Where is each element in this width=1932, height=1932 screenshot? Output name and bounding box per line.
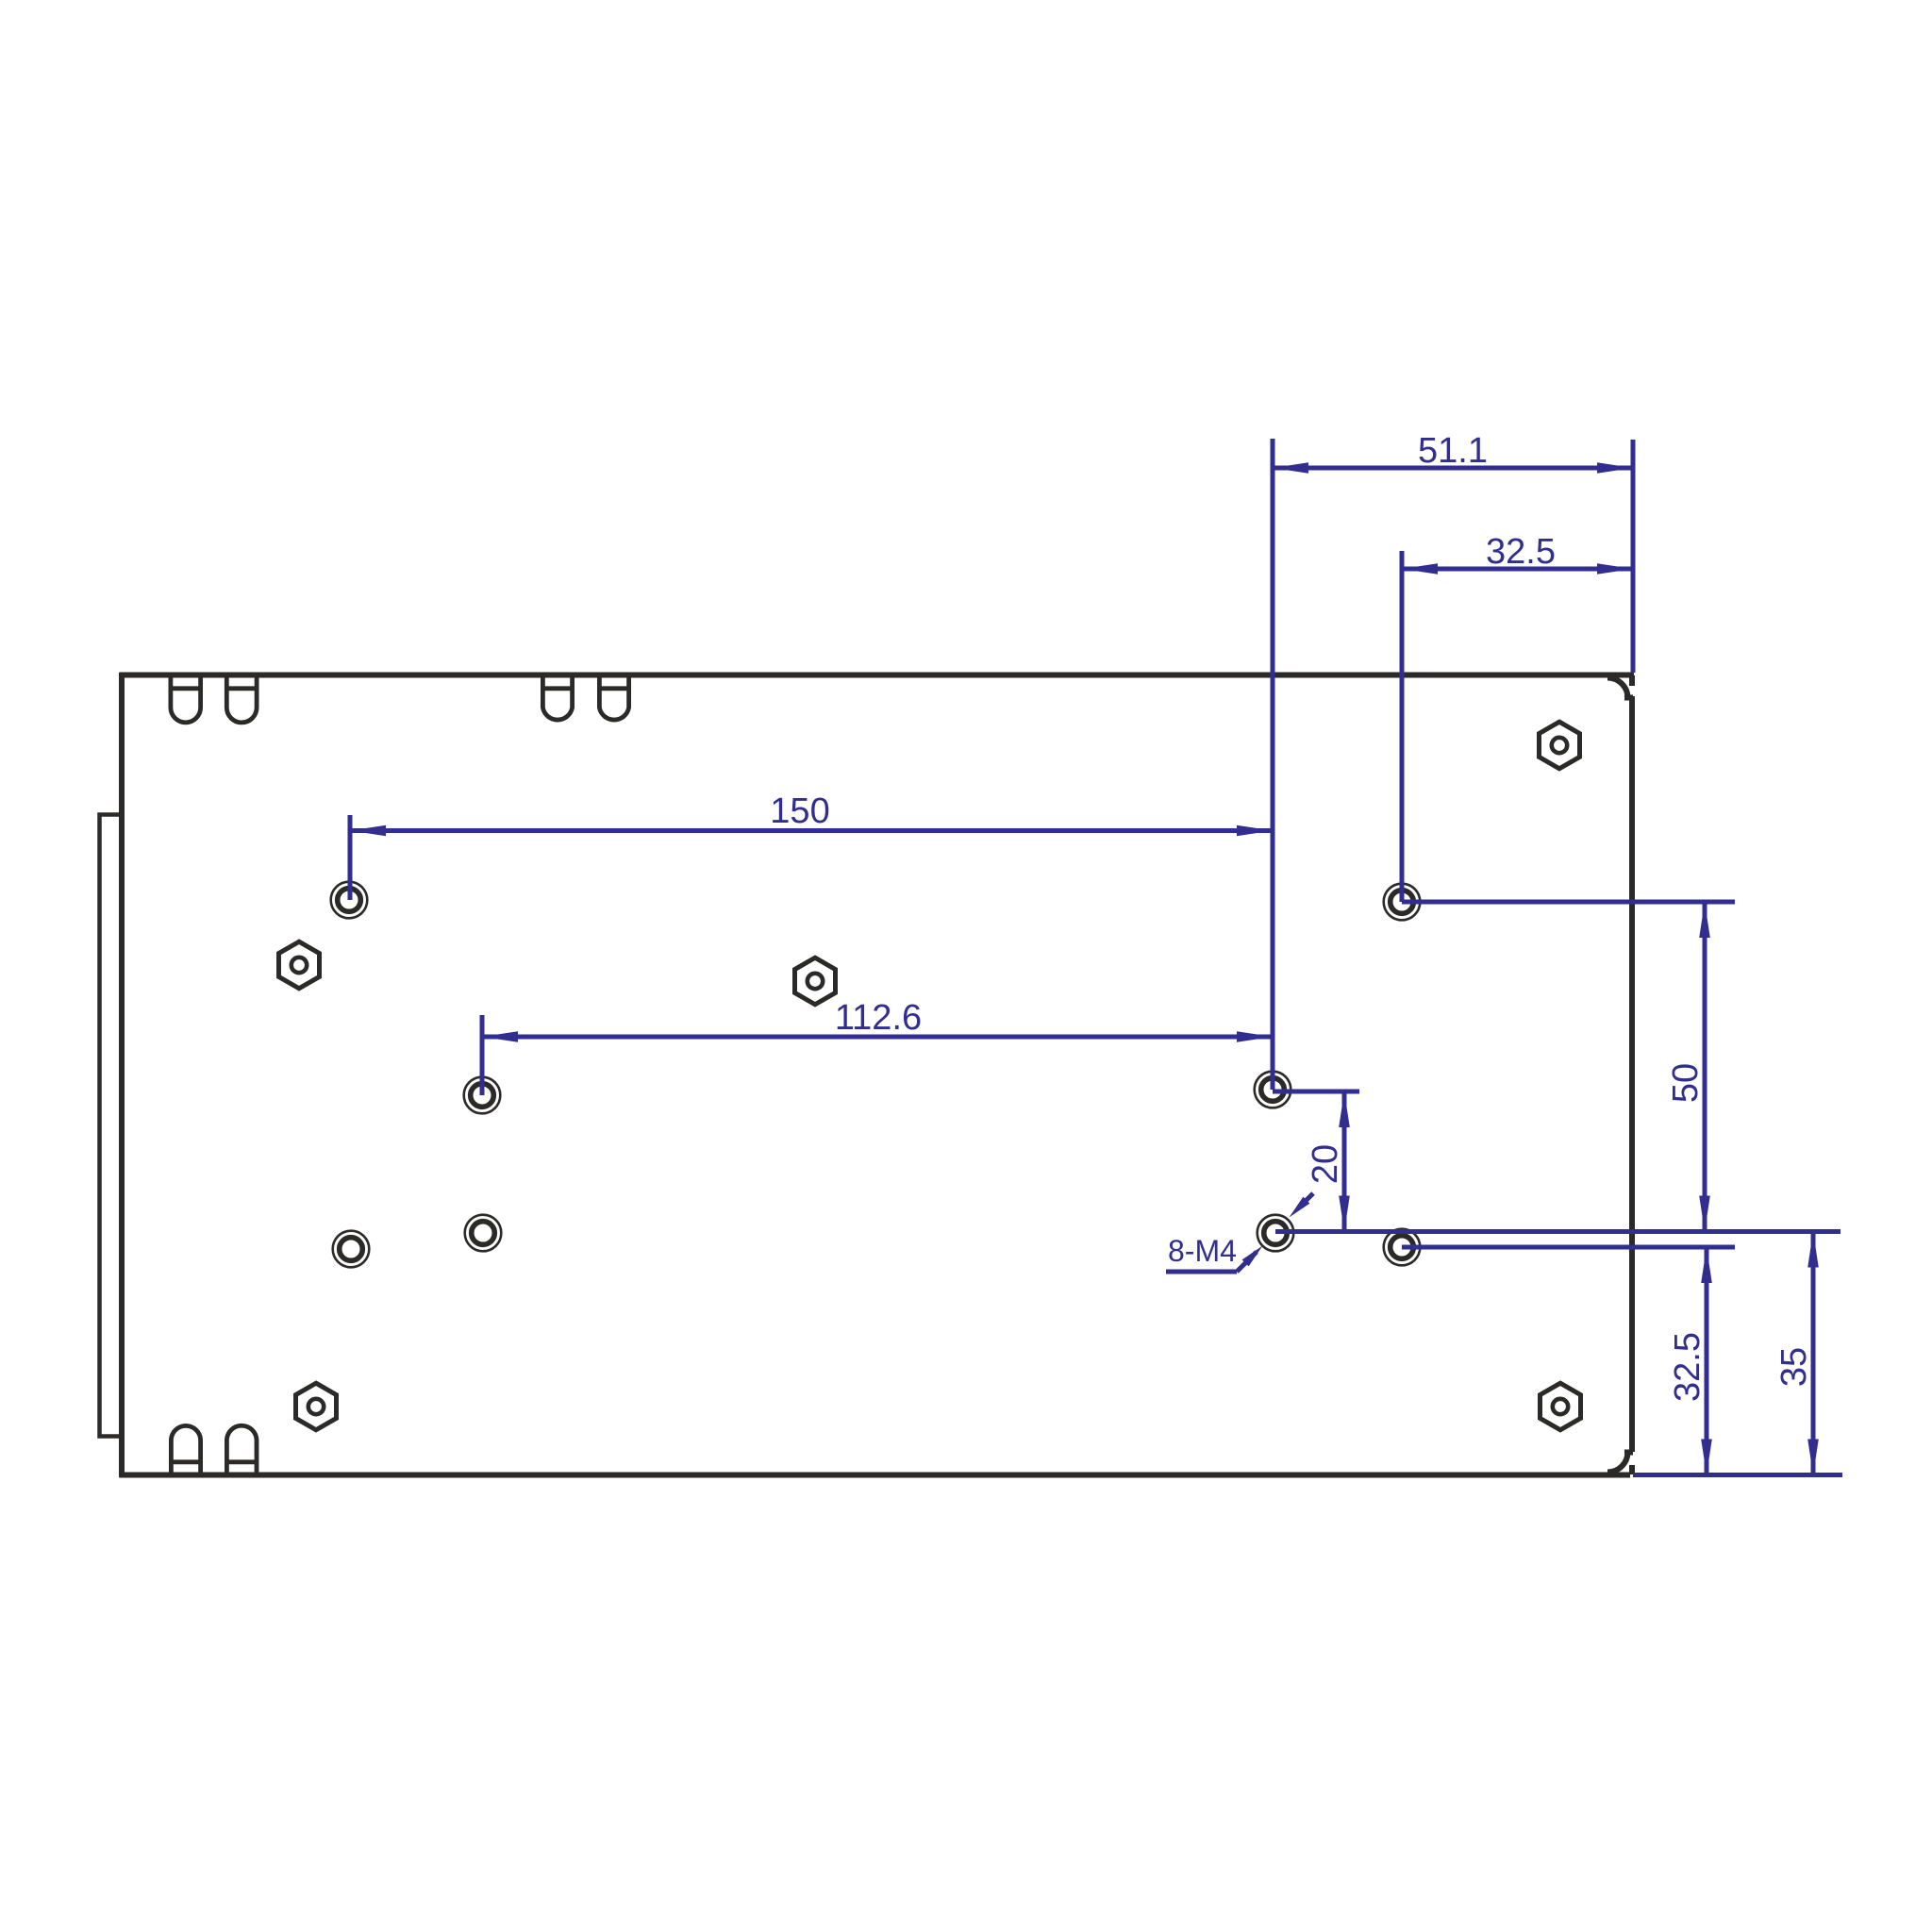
dimension line 51.1 (1273, 466, 1633, 471)
top slot 2 (226, 675, 257, 723)
svg-text:51.1: 51.1 (1418, 431, 1488, 471)
arrow 32.5 top right (1597, 563, 1633, 575)
top slot 4 crossbar (599, 686, 628, 691)
hole E (1257, 1215, 1294, 1252)
bottom arch 1 crossbar (171, 1459, 200, 1464)
hole H (465, 1215, 502, 1252)
bottom-right arc tick (1624, 1450, 1633, 1456)
line through hole F (1402, 1245, 1735, 1250)
hex nut 4 (296, 1383, 337, 1430)
arrow 51.1 left (1273, 462, 1308, 474)
dimension line 32.5 right (1705, 1247, 1709, 1475)
hole B (464, 1077, 501, 1114)
arrow 32.5 right down (1701, 1440, 1712, 1475)
8-M4 leader underline (1166, 1270, 1237, 1274)
dimension line 35 (1811, 1232, 1816, 1475)
dimension line 112.6 (482, 1035, 1273, 1040)
bottom arch 1 (171, 1425, 200, 1474)
arrow 35 down (1807, 1440, 1819, 1475)
dimension line 20 (1342, 1091, 1347, 1232)
arrow 150 left (350, 825, 386, 837)
long extension line to hole C (1271, 439, 1275, 1090)
arrow 35 up (1807, 1232, 1819, 1268)
svg-text:8-M4: 8-M4 (1168, 1234, 1237, 1268)
top-right corner stub (1629, 675, 1635, 686)
extension line from hole A (348, 815, 353, 900)
hole F (1384, 1229, 1421, 1266)
dimension line 50 (1703, 902, 1707, 1232)
line through hole E (1275, 1229, 1840, 1234)
bottom arch 2 crossbar (226, 1459, 257, 1464)
hole D (1384, 884, 1421, 921)
svg-text:20: 20 (1306, 1144, 1345, 1184)
dimension line 32.5 top (1402, 567, 1633, 572)
hex nut 3 (1540, 722, 1580, 769)
arrow 51.1 right (1597, 462, 1633, 474)
line through hole D (1402, 900, 1735, 905)
top slot 3 (542, 675, 572, 720)
top slot 3 crossbar (542, 686, 572, 691)
plate bottom edge (120, 1473, 1631, 1478)
plate top edge (120, 673, 1635, 678)
svg-text:32.5: 32.5 (1486, 532, 1556, 572)
plate right edge (1629, 696, 1635, 1452)
line through hole C (1273, 1090, 1359, 1094)
arrow 32.5 right up (1701, 1247, 1712, 1283)
8-M4 leader diagonal (1237, 1252, 1257, 1272)
bottom arch 2 (226, 1425, 257, 1474)
svg-text:50: 50 (1666, 1063, 1706, 1103)
left connector tab (100, 815, 123, 1437)
bottom-right corner fillet arc (1607, 1452, 1628, 1473)
top slot 1 (171, 675, 201, 723)
hex nut 1 (279, 941, 320, 989)
arrow NE leader (1290, 1197, 1310, 1218)
top-right arc tick (1624, 695, 1633, 701)
hex nut 5 (1541, 1383, 1581, 1430)
arrow 112.6 left (482, 1031, 518, 1042)
top slot 4 (599, 675, 628, 720)
svg-text:35: 35 (1774, 1347, 1814, 1387)
arrow 50 down (1699, 1196, 1710, 1232)
hole G (333, 1231, 370, 1268)
extension line from hole D (1400, 551, 1405, 902)
dimension line 150 (350, 828, 1273, 833)
hole C (1255, 1072, 1291, 1108)
bottom extension line (1633, 1473, 1842, 1477)
arrow 20 up (1339, 1091, 1350, 1127)
hex nut 2 (795, 958, 836, 1005)
arrow 112.6 right (1237, 1031, 1273, 1042)
small leader NE of hole E (1299, 1193, 1313, 1207)
arrow 8-M4 leader (1242, 1246, 1263, 1267)
arrow 50 up (1699, 902, 1710, 938)
arrow 150 right (1237, 825, 1273, 837)
extension line from hole B (480, 1015, 485, 1095)
arrow 20 down (1339, 1196, 1350, 1232)
svg-text:32.5: 32.5 (1668, 1332, 1707, 1402)
bottom-right corner stub (1629, 1465, 1635, 1474)
top-right corner fillet arc (1607, 678, 1628, 699)
top slot 2 crossbar (226, 686, 257, 691)
extension line at plate right corner (1631, 440, 1636, 673)
plate left edge (119, 673, 125, 1477)
svg-text:150: 150 (770, 791, 829, 831)
hole A (331, 882, 368, 919)
svg-text:112.6: 112.6 (835, 998, 922, 1038)
top slot 1 crossbar (171, 686, 201, 691)
arrow 32.5 top left (1402, 563, 1438, 575)
